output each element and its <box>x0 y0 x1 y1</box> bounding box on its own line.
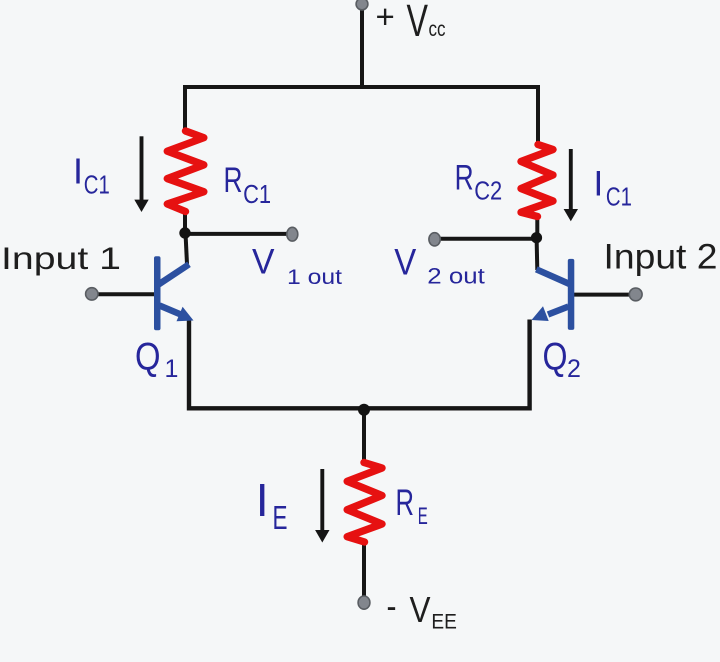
svg-text:1 out: 1 out <box>287 265 342 289</box>
svg-text:+: + <box>376 0 395 35</box>
svg-text:1: 1 <box>165 355 179 383</box>
svg-text:C1: C1 <box>243 179 271 209</box>
svg-text:2: 2 <box>567 355 581 383</box>
svg-text:V: V <box>407 0 429 46</box>
svg-text:I: I <box>256 474 269 526</box>
svg-text:I: I <box>73 151 83 192</box>
svg-text:EE: EE <box>431 610 457 634</box>
svg-text:Input 2: Input 2 <box>604 237 718 277</box>
svg-text:C2: C2 <box>474 176 502 206</box>
svg-text:C1: C1 <box>84 169 110 199</box>
svg-text:-: - <box>387 585 397 626</box>
svg-text:Q: Q <box>543 336 568 379</box>
svg-text:I: I <box>594 164 604 203</box>
svg-text:E: E <box>418 503 428 530</box>
svg-text:V: V <box>410 589 431 630</box>
svg-text:C1: C1 <box>606 181 632 211</box>
svg-text:cc: cc <box>429 18 446 41</box>
svg-text:R: R <box>224 161 243 200</box>
svg-text:2 out: 2 out <box>427 264 485 289</box>
svg-text:R: R <box>396 482 415 523</box>
svg-text:E: E <box>273 499 288 536</box>
svg-text:Input 1: Input 1 <box>1 240 121 276</box>
svg-text:Q: Q <box>135 336 161 379</box>
svg-text:V: V <box>252 242 275 281</box>
svg-text:V: V <box>394 241 416 282</box>
svg-text:R: R <box>455 159 474 198</box>
